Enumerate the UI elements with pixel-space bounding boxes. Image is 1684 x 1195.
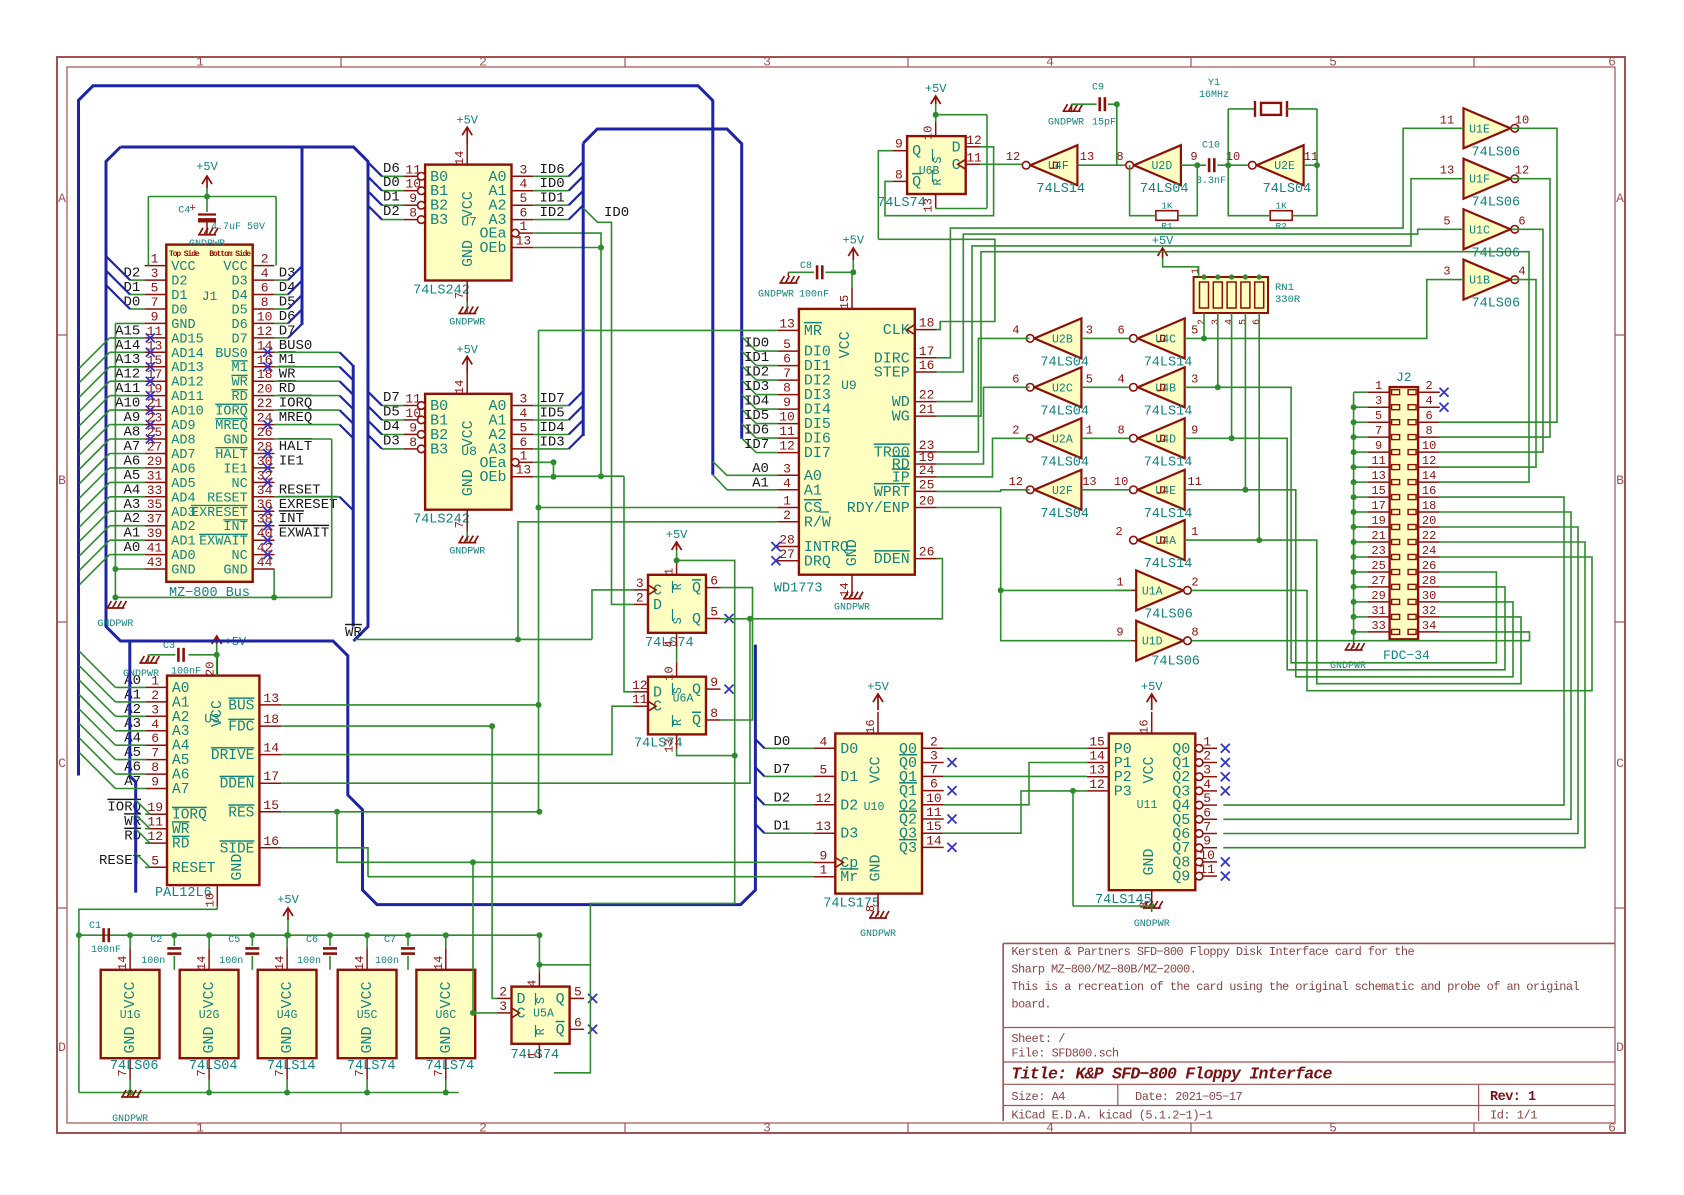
svg-text:20: 20 [257,382,273,397]
svg-text:8: 8 [409,206,417,221]
svg-text:12: 12 [966,133,982,148]
svg-text:6: 6 [261,281,269,296]
svg-text:9: 9 [409,420,417,435]
svg-text:C5: C5 [228,935,240,946]
svg-text:15: 15 [926,819,942,834]
svg-text:DRIVE: DRIVE [211,748,255,764]
svg-text:+5V: +5V [456,343,478,357]
svg-text:CLK: CLK [883,322,910,339]
svg-text:Y1: Y1 [1208,78,1220,89]
svg-text:AD15: AD15 [171,332,203,347]
svg-text:MREQ: MREQ [215,419,247,434]
svg-text:C1: C1 [89,921,101,932]
svg-text:SIDE: SIDE [220,841,255,857]
svg-text:B: B [58,473,66,488]
svg-text:VCC: VCC [460,191,477,218]
svg-text:10: 10 [1515,113,1529,127]
svg-text:1: 1 [663,568,677,575]
svg-text:A: A [1616,191,1624,206]
svg-text:ID3: ID3 [540,434,565,450]
svg-text:2: 2 [1197,319,1208,325]
svg-text:U1B: U1B [1469,275,1490,288]
svg-text:33: 33 [147,483,163,498]
svg-text:9: 9 [1203,834,1211,849]
svg-text:VCC: VCC [209,700,226,727]
svg-text:9: 9 [151,309,159,324]
svg-text:2: 2 [1115,525,1122,539]
svg-text:4: 4 [261,266,269,281]
svg-text:12: 12 [1422,454,1436,468]
svg-text:+5V: +5V [456,114,478,128]
svg-text:Q9: Q9 [1172,869,1190,886]
svg-text:13: 13 [1371,469,1385,483]
svg-text:WPRT: WPRT [874,484,910,501]
svg-text:MREQ: MREQ [279,410,313,426]
svg-text:GND: GND [867,854,884,881]
svg-text:EXWAIT: EXWAIT [279,526,329,542]
svg-text:3: 3 [763,55,771,70]
svg-text:330R: 330R [1275,294,1301,306]
svg-text:GNDPWR: GNDPWR [860,929,896,940]
svg-text:C7: C7 [384,935,396,946]
svg-text:20: 20 [919,494,935,509]
svg-text:100nF: 100nF [91,945,121,956]
svg-text:6: 6 [1252,319,1263,325]
svg-text:20: 20 [203,662,217,676]
svg-text:3: 3 [519,162,527,177]
svg-text:+5V: +5V [1141,680,1163,694]
svg-text:34: 34 [1422,619,1436,633]
svg-text:12: 12 [1009,475,1023,489]
svg-text:Top Side: Top Side [169,250,200,259]
svg-text:6: 6 [1012,372,1019,386]
svg-text:8: 8 [1191,626,1198,640]
svg-text:3: 3 [1375,394,1382,408]
svg-text:B3: B3 [430,441,448,458]
svg-text:GND: GND [460,240,477,267]
svg-text:BUS: BUS [228,698,254,714]
svg-text:NC: NC [231,549,247,564]
svg-text:C4: C4 [178,206,190,217]
svg-text:D0: D0 [840,741,858,758]
svg-text:3: 3 [151,702,159,717]
svg-text:1: 1 [151,252,159,267]
svg-text:9: 9 [1190,150,1197,164]
svg-text:44: 44 [257,555,273,570]
svg-text:+5V: +5V [196,160,218,174]
svg-text:U4E: U4E [1155,485,1176,498]
svg-text:8: 8 [864,905,878,912]
svg-text:WG: WG [892,409,910,426]
svg-text:GND: GND [359,1026,376,1053]
svg-text:S: S [672,617,685,624]
svg-text:10: 10 [1199,848,1215,863]
svg-text:U11: U11 [1137,799,1158,812]
svg-text:10: 10 [405,177,421,192]
svg-text:U5C: U5C [357,1009,378,1022]
svg-text:J2: J2 [1396,370,1412,385]
svg-text:14: 14 [195,956,209,970]
svg-text:C10: C10 [1202,141,1220,152]
svg-text:25: 25 [919,477,935,492]
svg-text:3: 3 [1203,763,1211,778]
svg-text:15: 15 [1371,484,1385,498]
svg-text:10: 10 [663,666,677,680]
svg-text:10: 10 [1422,439,1436,453]
svg-text:KiCad E.D.A. kicad (5.1.2−1)−: KiCad E.D.A. kicad (5.1.2−1)−1 [1011,1109,1212,1123]
svg-text:22: 22 [257,396,273,411]
svg-text:13: 13 [922,198,936,212]
svg-text:16: 16 [1138,719,1152,733]
svg-text:14: 14 [273,956,287,970]
svg-text:P3: P3 [1114,783,1132,800]
svg-text:16MHz: 16MHz [1199,90,1229,101]
svg-text:D7: D7 [773,762,790,778]
svg-text:4: 4 [519,406,527,421]
svg-text:20: 20 [1422,514,1436,528]
svg-text:GND: GND [223,434,247,449]
svg-text:VCC: VCC [1141,756,1158,783]
svg-text:U1A: U1A [1142,585,1163,598]
svg-text:+5V: +5V [925,82,947,96]
svg-text:74LS06: 74LS06 [1144,607,1193,622]
svg-text:GNDPWR: GNDPWR [834,603,870,614]
svg-text:VCC: VCC [122,981,139,1008]
svg-text:D1: D1 [840,769,858,786]
svg-text:14: 14 [453,380,467,394]
svg-text:3: 3 [499,999,507,1014]
svg-text:A7: A7 [124,774,141,790]
svg-text:9: 9 [783,395,791,410]
svg-text:10: 10 [779,410,795,425]
svg-text:28: 28 [779,533,795,548]
svg-text:2: 2 [783,508,791,523]
svg-text:R1: R1 [1161,221,1173,232]
svg-text:8: 8 [783,381,791,396]
svg-text:74LS06: 74LS06 [1472,246,1521,261]
svg-text:8: 8 [1425,424,1432,438]
svg-text:16: 16 [864,719,878,733]
svg-text:2: 2 [1203,749,1211,764]
svg-text:100n: 100n [297,956,321,967]
svg-text:+: + [189,203,196,215]
svg-text:9: 9 [1191,423,1198,437]
svg-text:10: 10 [257,309,273,324]
svg-text:100n: 100n [219,956,243,967]
svg-text:1: 1 [1375,379,1382,393]
svg-text:7: 7 [930,762,938,777]
svg-text:74LS04: 74LS04 [1140,182,1189,197]
svg-text:GND: GND [279,1026,296,1053]
svg-text:5: 5 [819,762,827,777]
svg-text:5: 5 [574,984,582,999]
svg-text:U6B: U6B [919,165,940,178]
svg-text:2: 2 [499,984,507,999]
svg-text:100nF: 100nF [799,290,829,301]
svg-text:18: 18 [919,316,935,331]
svg-text:5: 5 [1086,372,1093,386]
svg-text:IE1: IE1 [223,462,247,477]
svg-text:GND: GND [171,318,195,333]
svg-text:R: R [672,583,685,590]
svg-text:13: 13 [1440,164,1454,178]
svg-text:74LS06: 74LS06 [1151,655,1200,670]
svg-text:12: 12 [257,324,273,339]
svg-text:J1: J1 [202,289,218,304]
svg-text:U1D: U1D [1142,636,1163,649]
svg-text:9: 9 [1375,439,1382,453]
svg-text:17: 17 [1371,499,1385,513]
svg-text:Sharp MZ−800/MZ−80B/MZ−2000.: Sharp MZ−800/MZ−80B/MZ−2000. [1011,963,1196,977]
svg-text:9: 9 [819,849,827,864]
svg-text:2: 2 [479,55,487,70]
svg-text:30: 30 [1422,589,1436,603]
svg-text:+5V: +5V [867,680,889,694]
svg-text:A: A [58,191,66,206]
svg-text:14: 14 [116,956,130,970]
svg-text:MZ−800 Bus: MZ−800 Bus [169,586,250,601]
svg-text:3: 3 [1086,323,1093,337]
svg-text:11: 11 [1199,862,1215,877]
svg-text:13: 13 [263,691,279,706]
svg-text:13: 13 [516,463,532,478]
svg-text:Q: Q [912,174,921,191]
svg-text:R: R [932,178,945,185]
svg-text:2: 2 [479,1121,487,1136]
svg-text:U4G: U4G [277,1009,298,1022]
svg-text:U2G: U2G [199,1009,220,1022]
svg-text:10: 10 [926,791,942,806]
svg-text:D3: D3 [840,826,858,843]
svg-text:Q: Q [556,991,565,1008]
svg-text:C: C [1616,756,1624,771]
svg-text:Rev: 1: Rev: 1 [1490,1090,1536,1105]
svg-text:9: 9 [409,191,417,206]
svg-text:14: 14 [257,338,273,353]
svg-text:2: 2 [636,590,644,605]
svg-text:C8: C8 [800,261,812,272]
svg-text:U2B: U2B [1052,333,1073,346]
svg-text:R/W: R/W [804,514,831,531]
svg-text:22: 22 [1422,529,1436,543]
svg-text:S: S [932,157,945,164]
svg-text:A0: A0 [123,540,140,556]
svg-text:D2: D2 [383,204,400,220]
svg-text:3.3nF: 3.3nF [1196,176,1226,187]
svg-text:7: 7 [783,366,791,381]
svg-text:6: 6 [1203,805,1211,820]
svg-text:1K: 1K [1275,201,1287,212]
svg-text:GNDPWR: GNDPWR [449,547,485,558]
svg-text:3: 3 [763,1121,771,1136]
svg-text:13: 13 [516,234,532,249]
svg-text:13: 13 [1080,150,1094,164]
svg-text:6: 6 [574,1015,582,1030]
svg-text:74LS14: 74LS14 [1144,455,1193,470]
svg-text:17: 17 [919,344,935,359]
svg-text:5: 5 [1329,1121,1337,1136]
svg-text:14: 14 [1422,469,1436,483]
svg-text:16: 16 [1422,484,1436,498]
svg-text:Q: Q [692,713,701,730]
svg-text:26: 26 [257,425,273,440]
svg-text:12: 12 [1089,777,1105,792]
svg-text:2: 2 [261,252,269,267]
svg-text:D6: D6 [231,318,247,333]
svg-text:FDC: FDC [228,720,254,736]
svg-text:C: C [58,756,66,771]
svg-text:GNDPWR: GNDPWR [758,290,794,301]
svg-text:11: 11 [926,805,942,820]
svg-text:FDC−34: FDC−34 [1383,648,1430,663]
svg-text:100nF: 100nF [171,667,201,678]
svg-text:B: B [1616,473,1624,488]
svg-text:13: 13 [1089,763,1105,778]
svg-text:4: 4 [663,640,677,647]
svg-text:6: 6 [1117,323,1124,337]
svg-text:D4: D4 [231,289,247,304]
svg-text:D1: D1 [171,289,187,304]
svg-text:29: 29 [1371,589,1385,603]
svg-text:7: 7 [453,521,467,528]
svg-text:C2: C2 [150,935,162,946]
svg-text:25: 25 [1371,559,1385,573]
svg-text:5: 5 [1329,55,1337,70]
svg-text:AD8: AD8 [171,434,195,449]
svg-text:5: 5 [1203,791,1211,806]
svg-text:1: 1 [1191,525,1198,539]
svg-text:13: 13 [1082,475,1096,489]
svg-text:1: 1 [519,448,527,463]
svg-text:5: 5 [1375,409,1382,423]
svg-text:U9: U9 [841,378,857,393]
svg-text:29: 29 [147,454,163,469]
svg-text:GND: GND [223,564,247,579]
svg-text:EXWAIT: EXWAIT [199,535,248,550]
svg-text:AD11: AD11 [171,390,203,405]
svg-text:6: 6 [1608,1121,1616,1136]
svg-text:31: 31 [1371,604,1385,618]
svg-text:U10: U10 [864,801,885,814]
svg-text:1K: 1K [1161,201,1173,212]
svg-text:D5: D5 [231,304,247,319]
svg-text:18: 18 [263,712,279,727]
svg-text:4: 4 [1046,1121,1054,1136]
svg-text:13: 13 [779,316,795,331]
svg-text:5: 5 [710,605,718,620]
svg-text:3: 3 [1443,265,1450,279]
svg-text:+5V: +5V [666,528,688,542]
svg-text:AD14: AD14 [171,347,203,362]
svg-text:C3: C3 [163,641,175,652]
svg-text:Q3: Q3 [899,840,917,857]
svg-text:Size: A4: Size: A4 [1011,1090,1065,1104]
svg-text:12: 12 [816,791,832,806]
svg-text:1: 1 [783,494,791,509]
svg-text:D1: D1 [773,819,790,835]
svg-text:7: 7 [116,1069,130,1076]
svg-text:11: 11 [405,392,421,407]
svg-text:D7: D7 [231,332,247,347]
svg-text:U4F: U4F [1048,160,1069,173]
svg-text:VCC: VCC [460,420,477,447]
svg-text:22: 22 [919,388,935,403]
svg-text:AD5: AD5 [171,477,195,492]
svg-text:18: 18 [1422,499,1436,513]
svg-text:EXRESET: EXRESET [191,506,248,521]
svg-text:HALT: HALT [215,448,247,463]
svg-text:2: 2 [1425,379,1432,393]
svg-text:4: 4 [1117,372,1124,386]
svg-text:26: 26 [919,545,935,560]
svg-text:VCC: VCC [359,981,376,1008]
svg-text:7: 7 [151,295,159,310]
svg-text:12: 12 [632,678,648,693]
svg-text:D0: D0 [123,295,140,311]
svg-text:AD10: AD10 [171,405,203,420]
svg-text:OEb: OEb [479,469,506,486]
svg-text:U2E: U2E [1274,160,1295,173]
svg-text:10: 10 [922,126,936,140]
svg-text:12: 12 [1515,164,1529,178]
svg-text:RDY/ENP: RDY/ENP [847,500,910,517]
svg-text:Q: Q [692,682,701,699]
svg-text:GND: GND [438,1026,455,1053]
svg-text:U4A: U4A [1155,535,1176,548]
svg-text:6: 6 [151,731,159,746]
svg-text:U1F: U1F [1469,174,1490,187]
svg-text:D2: D2 [840,797,858,814]
svg-text:DDEN: DDEN [220,777,255,793]
svg-text:21: 21 [1371,529,1385,543]
svg-text:11: 11 [1304,150,1318,164]
svg-text:11: 11 [405,162,421,177]
svg-text:6: 6 [710,574,718,589]
svg-text:R: R [672,719,685,726]
svg-text:34: 34 [257,483,273,498]
svg-text:DI7: DI7 [804,445,831,462]
svg-text:11: 11 [1371,454,1385,468]
svg-text:AD7: AD7 [171,448,195,463]
svg-text:15pF: 15pF [1092,118,1116,129]
svg-text:5: 5 [1238,319,1249,325]
svg-text:74LS14: 74LS14 [1036,182,1085,197]
svg-text:B3: B3 [430,212,448,229]
svg-text:14: 14 [432,956,446,970]
svg-text:7: 7 [453,292,467,299]
svg-text:A7: A7 [172,782,189,798]
svg-text:7: 7 [195,1069,209,1076]
svg-text:8: 8 [1117,423,1124,437]
svg-text:GNDPWR: GNDPWR [1048,118,1084,129]
svg-text:D0: D0 [171,304,187,319]
svg-text:14: 14 [353,956,367,970]
svg-text:GNDPWR: GNDPWR [1134,919,1170,930]
svg-text:8: 8 [409,435,417,450]
svg-text:27: 27 [779,547,795,562]
svg-text:8: 8 [895,167,903,182]
svg-text:10: 10 [1114,475,1128,489]
svg-text:GND: GND [171,564,195,579]
svg-text:14: 14 [838,582,852,596]
svg-text:24: 24 [257,411,273,426]
svg-text:OEb: OEb [479,240,506,257]
svg-text:13: 13 [816,819,832,834]
svg-text:74LS06: 74LS06 [1472,297,1521,312]
svg-text:1: 1 [519,219,527,234]
svg-text:Date: 2021−05−17: Date: 2021−05−17 [1135,1090,1243,1104]
svg-text:INT: INT [223,520,247,535]
